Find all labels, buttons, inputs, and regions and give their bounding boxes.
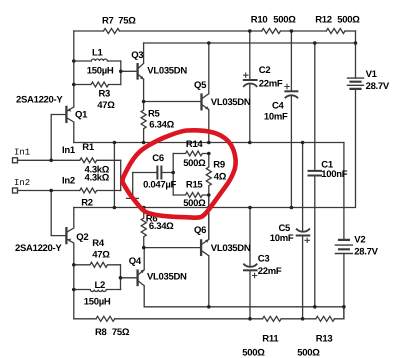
svg-text:Q4: Q4	[129, 256, 142, 267]
junction y307 rail to V2	[342, 305, 346, 309]
wire top rail mid	[120, 30, 262, 32]
svg-text:Q6: Q6	[194, 225, 206, 236]
svg-text:22mF: 22mF	[258, 266, 282, 277]
resistor R7	[104, 29, 120, 34]
transistor Q2	[66, 208, 73, 319]
junction L1 left	[72, 59, 76, 63]
svg-text:C3: C3	[258, 254, 270, 265]
wire top rail mid2	[281, 30, 327, 32]
junction Q3 emitter / R5 / Q5 base	[142, 100, 146, 104]
wire Q2 base lead	[51, 191, 66, 236]
junction C6 right / R14 R15 bracket	[171, 171, 175, 175]
junction R5 bottom on node A	[142, 141, 146, 145]
junction C2 bottom on node A	[248, 141, 252, 145]
capacitor C5	[297, 143, 310, 319]
svg-text:500Ω: 500Ω	[297, 348, 320, 358]
wire In1 lead	[18, 159, 80, 161]
svg-text:Q3: Q3	[131, 50, 143, 61]
wire nodeA to nodeB bridge	[113, 143, 115, 208]
resistor R13	[316, 316, 335, 321]
capacitor C2	[244, 31, 257, 143]
wire left rail upper	[73, 31, 75, 107]
svg-text:R11: R11	[262, 333, 279, 344]
svg-text:VL035DN: VL035DN	[211, 97, 251, 108]
wire Q1 base lead	[51, 115, 66, 161]
svg-text:R12: R12	[315, 14, 332, 25]
terminal In2	[13, 188, 18, 193]
svg-text:500Ω: 500Ω	[183, 198, 206, 209]
junction Q5 collector on y43 rail	[207, 41, 211, 45]
capacitor C1	[309, 43, 322, 307]
svg-text:4Ω: 4Ω	[214, 172, 227, 183]
svg-text:500Ω: 500Ω	[242, 348, 265, 358]
junction C1 bottom on y307 rail	[313, 305, 317, 309]
resistor R4	[74, 262, 121, 267]
svg-text:R15: R15	[186, 179, 204, 190]
capacitor C6	[127, 167, 174, 199]
junction Q5 emitter on node A	[207, 141, 211, 145]
svg-text:28.7V: 28.7V	[366, 81, 390, 92]
wire top rail left segment	[74, 30, 104, 32]
node A wire	[74, 142, 344, 144]
junction C3 bottom on ground rail	[248, 317, 252, 321]
junction Q6 collector on y307 rail	[207, 305, 211, 309]
junction C5 top on node A	[301, 141, 305, 145]
node B wire	[74, 89, 356, 208]
wire Q4Q6 collector rail	[144, 306, 344, 308]
wire R14R15 left bracket	[172, 154, 174, 196]
junction C2 tap on V+ rail	[248, 29, 252, 33]
resistor R3	[74, 82, 121, 87]
svg-text:R8: R8	[95, 327, 107, 338]
wire L1R3 right bracket	[120, 61, 122, 85]
svg-text:R4: R4	[92, 238, 105, 249]
svg-text:R1: R1	[82, 142, 95, 153]
junction C4 tap on V+ rail	[290, 29, 294, 33]
junction C4 bottom on node B	[290, 206, 294, 210]
resistor R15	[173, 193, 209, 198]
transistor Q6	[201, 195, 209, 307]
resistor R14	[173, 151, 209, 156]
junction R4 left	[72, 263, 76, 267]
svg-text:Q2: Q2	[76, 232, 88, 243]
junction R15 / R9 bottom	[207, 193, 211, 197]
junction Q3 base tap	[119, 70, 123, 74]
wire bottom rail left	[74, 318, 96, 320]
wire bottom rail mid2	[281, 318, 316, 320]
resistor R6	[141, 208, 146, 248]
wire R1R2 join	[120, 160, 122, 190]
wire top rail right end	[345, 30, 356, 32]
transistor Q5	[202, 43, 210, 143]
junction R3 left	[72, 83, 76, 87]
svg-text:2SA1220-Y: 2SA1220-Y	[16, 95, 63, 106]
red highlight loop	[122, 130, 235, 217]
svg-text:In1: In1	[62, 145, 76, 156]
svg-text:C6: C6	[152, 153, 164, 164]
wire bottom rail mid	[115, 318, 263, 320]
svg-text:V2: V2	[354, 234, 365, 245]
svg-text:Q1: Q1	[75, 110, 88, 121]
junction C5 bottom on ground rail	[301, 317, 305, 321]
svg-text:0.047µF: 0.047µF	[143, 180, 176, 191]
svg-text:100nF: 100nF	[321, 169, 347, 180]
svg-text:In2: In2	[62, 175, 75, 186]
transistor Q1	[66, 107, 73, 143]
wire V1 top lead	[355, 31, 357, 78]
svg-text:75Ω: 75Ω	[112, 327, 130, 338]
svg-text:4.3kΩ: 4.3kΩ	[85, 173, 110, 184]
svg-text:V1: V1	[366, 69, 378, 80]
svg-text:6.34Ω: 6.34Ω	[149, 120, 174, 131]
resistor R1	[80, 158, 121, 163]
svg-text:L1: L1	[92, 48, 104, 59]
junction R6 top on node B	[142, 206, 146, 210]
svg-text:75Ω: 75Ω	[118, 15, 136, 26]
svg-text:VL035DN: VL035DN	[147, 272, 187, 283]
svg-text:6.34Ω: 6.34Ω	[149, 221, 174, 232]
capacitor C3	[244, 208, 257, 319]
svg-text:Q5: Q5	[194, 80, 207, 91]
battery V1	[348, 78, 364, 89]
junction C1 tap on y43 rail	[313, 41, 317, 45]
svg-text:VL035DN: VL035DN	[147, 66, 187, 77]
wire Q3 base lead	[121, 70, 137, 72]
svg-text:500Ω: 500Ω	[183, 158, 206, 169]
svg-text:500Ω: 500Ω	[273, 14, 296, 25]
wire R4L2 right bracket	[120, 265, 122, 290]
svg-text:22mF: 22mF	[259, 79, 283, 90]
junction R9 column on node B	[207, 206, 211, 210]
terminal In1	[13, 158, 18, 163]
resistor R10	[262, 29, 281, 34]
junction R14 / R9 top	[207, 152, 211, 156]
svg-text:2SA1220-Y: 2SA1220-Y	[15, 243, 62, 254]
junction In1 to Q1 base	[49, 159, 53, 163]
transistor Q3	[138, 43, 144, 102]
capacitor C4	[285, 31, 298, 208]
junction bridge bottom on node B	[113, 206, 117, 210]
svg-text:R3: R3	[99, 89, 111, 100]
resistor R8	[96, 316, 115, 321]
junction Q4 emitter / R6 / Q6 base	[142, 246, 146, 250]
junction y43 rail to V1	[354, 41, 358, 45]
resistor R5	[141, 102, 146, 143]
wire Q6 base lead	[144, 247, 200, 249]
svg-text:R13: R13	[316, 333, 333, 344]
inductor L2	[74, 290, 121, 292]
svg-text:47Ω: 47Ω	[92, 249, 110, 260]
svg-text:C4: C4	[272, 101, 285, 112]
svg-text:28.7V: 28.7V	[354, 247, 378, 258]
svg-text:10mF: 10mF	[270, 233, 294, 244]
svg-text:150µH: 150µH	[87, 65, 114, 76]
svg-text:R5: R5	[148, 109, 161, 120]
resistor R11	[263, 316, 282, 321]
svg-text:L2: L2	[95, 280, 106, 291]
svg-text:C2: C2	[259, 65, 271, 76]
resistor R9	[206, 154, 211, 196]
svg-text:R9: R9	[213, 159, 225, 170]
wire R9 column lower	[208, 195, 210, 239]
wire collector rail y43	[144, 42, 356, 44]
junction L2 left	[72, 288, 76, 292]
wire Q5 base lead	[144, 101, 201, 103]
inductor L1	[74, 59, 121, 61]
resistor R2	[80, 188, 121, 193]
wire In2 lead	[18, 190, 80, 192]
junction bridge top on node A	[113, 141, 117, 145]
svg-text:In2: In2	[14, 178, 30, 188]
svg-text:R7: R7	[102, 15, 114, 26]
transistor Q4	[138, 248, 145, 307]
svg-text:500Ω: 500Ω	[337, 14, 360, 25]
svg-text:10mF: 10mF	[264, 112, 288, 123]
junction C3 top on node B	[248, 206, 252, 210]
svg-text:R10: R10	[251, 14, 268, 25]
wire bottom rail right	[335, 307, 344, 319]
battery V2	[335, 143, 352, 319]
resistor R12	[326, 29, 345, 34]
junction In2 to Q2 base	[49, 189, 53, 193]
svg-text:R2: R2	[81, 198, 93, 209]
svg-text:150µH: 150µH	[84, 297, 111, 308]
junction Q4 base tap	[119, 276, 123, 280]
svg-text:R14: R14	[186, 139, 204, 150]
svg-text:In1: In1	[14, 147, 30, 157]
svg-text:47Ω: 47Ω	[97, 100, 115, 111]
wire Q4 base lead	[121, 277, 137, 279]
svg-text:VL035DN: VL035DN	[211, 243, 251, 254]
